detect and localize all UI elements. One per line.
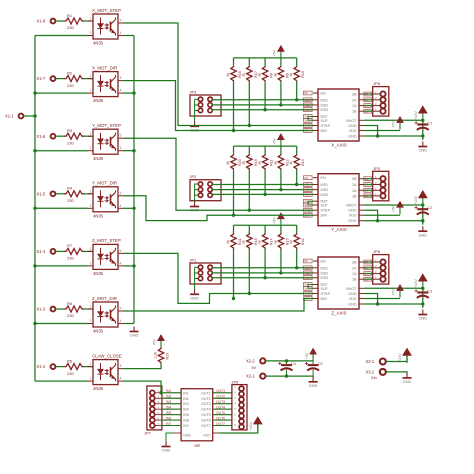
svg-text:MS3: MS3 — [321, 108, 329, 112]
junction pullup — [248, 124, 251, 127]
wire opto cathode branch — [35, 265, 88, 267]
wire coil 1A — [364, 105, 373, 107]
connector JP3 — [190, 90, 222, 117]
svg-text:4N35: 4N35 — [93, 156, 104, 161]
junction emitter bus — [132, 207, 135, 210]
svg-text:JP8: JP8 — [373, 249, 380, 254]
junction GNDII — [376, 134, 379, 137]
svg-text:SLP: SLP — [321, 287, 329, 291]
wire coil 1A — [364, 189, 373, 191]
wire net IN6 — [162, 419, 181, 421]
svg-text:OUT3: OUT3 — [216, 400, 225, 404]
optocoupler X_MOT_STEP 4N35 — [88, 8, 123, 46]
svg-text:VDD: VDD — [349, 297, 357, 301]
junction C4 bottom — [285, 374, 288, 377]
net label STEP — [304, 124, 313, 128]
svg-text:EN: EN — [305, 91, 309, 95]
wire pullup top leg — [233, 58, 235, 66]
svg-text:1B: 1B — [352, 110, 357, 114]
svg-text:2B: 2B — [365, 92, 368, 96]
net label OUT1 — [216, 389, 225, 393]
wire net IN7 — [162, 425, 181, 427]
svg-text:C5: C5 — [318, 361, 323, 366]
junction cathode bus — [33, 149, 36, 152]
svg-text:DIR: DIR — [321, 214, 328, 218]
junction pullup — [232, 214, 235, 217]
ground JP2 — [190, 202, 199, 213]
junction cathode bus — [33, 264, 36, 267]
svg-text:2: 2 — [90, 261, 92, 265]
junction pullup — [263, 276, 266, 279]
supply +5V arrow VDD — [392, 201, 404, 214]
wire net MS2 — [212, 189, 313, 191]
svg-text:230: 230 — [67, 25, 74, 30]
svg-text:5: 5 — [120, 19, 122, 23]
optocoupler Z_MOT_DIR 4N35 — [88, 296, 123, 334]
svg-text:4: 4 — [120, 261, 122, 265]
net label IN4 — [166, 405, 171, 409]
wire pullup top leg — [264, 58, 266, 66]
svg-text:OUT5: OUT5 — [201, 413, 211, 417]
net label OUT7 — [216, 422, 225, 426]
svg-text:+5V: +5V — [392, 121, 396, 128]
svg-text:STEP: STEP — [321, 124, 331, 128]
connector JP9 — [232, 380, 248, 430]
svg-text:MS1: MS1 — [305, 183, 311, 187]
wire net IN5 — [162, 414, 181, 416]
wire pullup +5V rail — [234, 57, 297, 59]
svg-text:4: 4 — [120, 204, 122, 208]
svg-text:+24V: +24V — [414, 279, 418, 288]
svg-text:4N35: 4N35 — [93, 329, 104, 334]
resistor R3 230 — [64, 128, 84, 145]
wire JP gnd column — [195, 184, 199, 202]
ground emitter bus — [130, 327, 139, 338]
svg-text:Y_AXIS: Y_AXIS — [331, 227, 346, 232]
net label OUT3 — [216, 400, 225, 404]
svg-text:4: 4 — [120, 146, 122, 150]
wire pullup top leg — [233, 225, 235, 233]
svg-text:X2-1: X2-1 — [246, 374, 255, 379]
wire pullup bottom leg — [248, 170, 250, 210]
svg-text:GND: GND — [418, 316, 427, 321]
svg-text:R1: R1 — [67, 13, 73, 18]
resistor R19 1k — [242, 154, 258, 170]
ground JP3 — [190, 121, 199, 132]
wire pullup top leg — [280, 58, 282, 66]
svg-text:230: 230 — [67, 313, 74, 318]
wire pullup top leg — [248, 58, 250, 66]
svg-text:+5V: +5V — [392, 289, 396, 296]
wire pullup bottom leg — [233, 249, 235, 299]
wire opto emitter stub — [123, 92, 134, 94]
net label MS1 — [304, 266, 313, 270]
resistor R22 1k — [289, 233, 305, 249]
svg-text:4: 4 — [120, 319, 122, 323]
wire coil 1B — [364, 278, 373, 280]
wire pullup top leg — [296, 146, 298, 154]
wire X2-2 5V rail — [265, 360, 313, 362]
wire opto emitter stub — [123, 323, 134, 325]
wire X1-1 to bus — [24, 115, 36, 117]
wire pullup top leg — [233, 146, 235, 154]
wire net MS3 — [212, 109, 313, 112]
wire pullup bottom leg — [280, 249, 282, 273]
svg-text:C1: C1 — [427, 120, 432, 125]
svg-text:IN3: IN3 — [166, 400, 171, 404]
svg-text:X_MOT_DIR: X_MOT_DIR — [92, 65, 117, 70]
resistor R12 1k — [273, 154, 289, 170]
wire pullup bottom leg — [296, 82, 298, 100]
svg-text:X1-6: X1-6 — [37, 134, 46, 139]
wire X1-8 to resistor — [56, 20, 65, 22]
wire net MS1 — [212, 183, 313, 186]
driver IC Z_AXIS — [313, 257, 364, 316]
net label 1B — [364, 109, 372, 113]
svg-text:EN: EN — [305, 176, 309, 180]
svg-text:JP7: JP7 — [144, 431, 151, 436]
wire X3-1 24V — [386, 356, 407, 362]
svg-text:4N35: 4N35 — [93, 98, 104, 103]
svg-text:2: 2 — [90, 377, 92, 381]
junction pullup — [295, 183, 298, 186]
svg-text:2: 2 — [90, 319, 92, 323]
svg-text:GND: GND — [348, 209, 357, 213]
svg-text:IN2: IN2 — [166, 394, 171, 398]
connector pin X2-2 — [246, 358, 265, 370]
wire VDD to 5V — [364, 214, 400, 216]
junction cathode bus — [33, 207, 36, 210]
net label EN — [304, 91, 313, 95]
wire coil 1A — [364, 273, 373, 275]
wire VMOT to 24V — [364, 119, 423, 121]
wire resistor to opto pin1 — [84, 78, 93, 80]
connector pin X1-8 — [37, 19, 56, 24]
svg-text:+5V: +5V — [305, 352, 309, 359]
svg-text:4N35: 4N35 — [93, 386, 104, 391]
junction X1-1 bus — [33, 114, 36, 117]
wire opto emitter stub — [123, 207, 134, 209]
connector JP8 — [373, 249, 389, 284]
wire pullup +5V rail — [234, 145, 297, 147]
supply +5V arrow pullups — [273, 46, 285, 59]
ground C1 — [418, 142, 427, 153]
wire coil 1B — [364, 110, 373, 112]
svg-text:IN2: IN2 — [183, 397, 189, 401]
wire opto emitter stub — [123, 265, 134, 267]
net label MS3 — [304, 108, 313, 112]
svg-text:IN4: IN4 — [183, 408, 189, 412]
svg-text:C2: C2 — [427, 205, 432, 210]
svg-text:5: 5 — [120, 191, 122, 195]
junction emitter bus — [132, 91, 135, 94]
wire pullup bottom leg — [248, 82, 250, 126]
wire net OUT7 — [213, 425, 232, 427]
supply +5V arrow R23 — [153, 335, 165, 348]
wire VMOT to 24V — [364, 287, 423, 289]
supply +5V arrow VDD — [392, 285, 404, 298]
net label STEP — [304, 292, 313, 296]
connector pin X1-7 — [37, 76, 56, 81]
wire pullup top leg — [264, 146, 266, 154]
svg-text:R3: R3 — [67, 128, 73, 133]
svg-text:X3-1: X3-1 — [366, 359, 375, 364]
svg-text:4: 4 — [120, 89, 122, 93]
wire GND step — [364, 294, 378, 305]
connector JP6 — [373, 81, 389, 116]
ground U8 — [162, 442, 171, 453]
net label 2B — [364, 92, 372, 96]
capacitor C5 — [305, 361, 323, 376]
optocoupler Y_MOT_STEP 4N35 — [88, 123, 123, 161]
svg-text:IN1: IN1 — [166, 389, 171, 393]
svg-text:GND: GND — [348, 124, 357, 128]
svg-text:EN: EN — [305, 259, 309, 263]
net label IN3 — [166, 400, 171, 404]
svg-text:X1-5: X1-5 — [37, 191, 46, 196]
svg-text:R10: R10 — [301, 71, 305, 78]
svg-text:1k: 1k — [242, 73, 246, 77]
wire pullup bottom leg — [233, 82, 235, 131]
supply +24V arrow U8 — [249, 417, 262, 432]
resistor R14 1k — [258, 233, 274, 249]
svg-text:IN7: IN7 — [166, 422, 171, 426]
svg-text:JP1: JP1 — [190, 258, 197, 263]
wire X2-1 gnd rail — [265, 375, 313, 377]
svg-text:R6: R6 — [67, 301, 73, 306]
svg-text:2A: 2A — [365, 266, 368, 270]
wire net IN3 — [162, 403, 181, 405]
svg-text:R4: R4 — [67, 186, 73, 191]
net label MS3 — [304, 193, 313, 197]
svg-text:C4: C4 — [291, 361, 297, 366]
svg-text:1k: 1k — [226, 161, 230, 165]
svg-text:OUT2: OUT2 — [216, 394, 225, 398]
wire VDD to 5V — [364, 130, 400, 132]
wire coil 2A — [364, 184, 373, 186]
svg-text:MS2: MS2 — [321, 103, 329, 107]
net label STEP — [304, 208, 313, 212]
wire coil 2A — [364, 267, 373, 269]
svg-text:1B: 1B — [365, 194, 368, 198]
svg-text:2A: 2A — [365, 98, 368, 102]
wire X1-2 to resistor — [56, 366, 65, 368]
wire opto cathode branch — [35, 207, 88, 209]
wire net Z DIR — [123, 299, 313, 312]
junction VMOT cap — [421, 203, 424, 206]
svg-text:1B: 1B — [365, 109, 368, 113]
wire opto cathode branch — [35, 323, 88, 325]
svg-text:X_MOT_STEP: X_MOT_STEP — [92, 8, 121, 13]
svg-text:OUT2: OUT2 — [201, 397, 211, 401]
junction pullup — [279, 103, 282, 106]
wire pullup top leg — [248, 225, 250, 233]
svg-text:1A: 1A — [365, 104, 368, 108]
svg-text:MS2: MS2 — [305, 271, 311, 275]
wire net Z STEP — [123, 253, 313, 303]
resistor R7 230 — [64, 243, 84, 260]
optocoupler X_MOT_DIR 4N35 — [88, 65, 123, 103]
junction pullup — [232, 297, 235, 300]
svg-text:1B: 1B — [365, 277, 368, 281]
wire net OUT2 — [213, 397, 232, 399]
svg-text:+24V: +24V — [398, 353, 402, 362]
junction GNDII — [376, 302, 379, 305]
svg-text:MS3: MS3 — [305, 193, 311, 197]
svg-text:1k: 1k — [242, 240, 246, 244]
svg-text:OUT7: OUT7 — [201, 424, 211, 428]
junction C4 top — [285, 359, 288, 362]
wire JP gnd column — [195, 99, 199, 121]
connector pin X1-1 — [5, 114, 23, 119]
net label SLP — [304, 118, 313, 122]
junction pullup — [295, 98, 298, 101]
net label EN — [304, 259, 313, 263]
wire resistor to opto pin1 — [84, 250, 93, 252]
connector pin X1-5 — [37, 191, 56, 196]
wire coil 2A — [364, 99, 373, 101]
wire resistor to opto pin1 — [84, 135, 93, 137]
wire opto cathode branch — [35, 92, 88, 94]
svg-text:MS1: MS1 — [321, 183, 329, 187]
net label 2A — [364, 183, 372, 187]
junction cap GNDII — [421, 302, 424, 305]
svg-text:MS1: MS1 — [305, 266, 311, 270]
svg-text:EN: EN — [321, 260, 326, 264]
wire net IN2 — [162, 397, 181, 399]
svg-text:1k: 1k — [289, 240, 293, 244]
net label OUT6 — [216, 416, 225, 420]
svg-text:X1-1: X1-1 — [5, 114, 14, 119]
svg-text:1: 1 — [90, 17, 92, 21]
wire X2 gnd drop — [312, 375, 314, 378]
svg-text:EN: EN — [321, 176, 326, 180]
net label RST — [304, 115, 313, 119]
resistor R17 1k — [242, 66, 258, 82]
svg-text:IN6: IN6 — [183, 419, 189, 423]
svg-text:VMOT: VMOT — [346, 204, 357, 208]
svg-text:OUT1: OUT1 — [216, 389, 225, 393]
resistor R16 1k — [226, 66, 242, 82]
wire opto emitter stub — [123, 35, 134, 37]
junction emitter bus — [132, 149, 135, 152]
svg-text:X1-3: X1-3 — [37, 307, 46, 312]
svg-text:R23: R23 — [166, 353, 170, 360]
net label 2A — [364, 266, 372, 270]
svg-text:VDC: VDC — [203, 434, 211, 438]
svg-text:2.2k: 2.2k — [153, 352, 157, 359]
wire opto cathode branch — [35, 380, 88, 382]
svg-text:1k: 1k — [289, 73, 293, 77]
connector JP7 — [144, 386, 162, 436]
svg-text:+5V: +5V — [273, 217, 277, 224]
svg-text:4N35: 4N35 — [93, 41, 104, 46]
svg-text:2B: 2B — [365, 260, 368, 264]
net label DIR — [304, 129, 313, 133]
wire net Y STEP — [123, 138, 313, 210]
wire pullup top leg — [264, 225, 266, 233]
svg-text:4N35: 4N35 — [93, 213, 104, 218]
capacitor C1 — [415, 120, 433, 140]
driver IC X_AXIS — [313, 89, 364, 148]
svg-text:1: 1 — [90, 189, 92, 193]
svg-text:+5V: +5V — [273, 49, 277, 56]
wire pullup bottom leg — [296, 170, 298, 185]
svg-text:5: 5 — [120, 307, 122, 311]
resistor R21 1k — [226, 233, 242, 249]
svg-text:MS3: MS3 — [321, 193, 329, 197]
net label 1B — [364, 277, 372, 281]
net label DIR — [304, 297, 313, 301]
wire emitter bus — [133, 36, 135, 324]
wire VDD to 5V — [364, 298, 400, 300]
svg-text:2: 2 — [90, 204, 92, 208]
svg-text:Y_MOT_STEP: Y_MOT_STEP — [92, 123, 121, 128]
net label MS2 — [304, 103, 313, 107]
wire pullup bottom leg — [264, 170, 266, 195]
svg-text:R2: R2 — [67, 70, 73, 75]
wire net IN1 — [162, 392, 181, 394]
wire RST-SLP link — [308, 201, 313, 205]
wire net Y DIR — [123, 196, 313, 221]
wire cathode bus — [34, 36, 36, 382]
svg-text:1k: 1k — [258, 240, 262, 244]
net label IN7 — [166, 422, 171, 426]
wire JP gnd column — [195, 267, 199, 289]
svg-text:1: 1 — [90, 305, 92, 309]
svg-text:1: 1 — [90, 247, 92, 251]
wire net OUT3 — [213, 403, 232, 405]
svg-text:4: 4 — [120, 377, 122, 381]
optocoupler Y_MOT_DIR 4N35 — [88, 181, 123, 219]
svg-text:4: 4 — [120, 31, 122, 35]
resistor R6 230 — [64, 301, 84, 318]
capacitor C3 — [415, 288, 433, 308]
wire pullup top leg — [248, 146, 250, 154]
svg-text:GND: GND — [348, 303, 357, 307]
svg-text:GND: GND — [348, 135, 357, 139]
svg-text:JP5: JP5 — [373, 166, 380, 171]
svg-text:X1-7: X1-7 — [37, 76, 46, 81]
svg-text:2A: 2A — [352, 98, 357, 102]
svg-text:+24V: +24V — [414, 195, 418, 204]
svg-text:MS1: MS1 — [305, 98, 311, 102]
wire pullup bottom leg — [296, 249, 298, 268]
svg-text:+24V: +24V — [414, 111, 418, 120]
net label MS1 — [304, 183, 313, 187]
net label 2A — [364, 98, 372, 102]
wire opto emitter stub — [123, 150, 134, 152]
svg-text:2B: 2B — [352, 261, 357, 265]
wire pullup +5V rail — [234, 224, 297, 226]
svg-text:Z_MOT_DIR: Z_MOT_DIR — [92, 296, 117, 301]
svg-text:1k: 1k — [273, 73, 277, 77]
resistor R5 230 — [64, 358, 84, 375]
svg-text:MS3: MS3 — [321, 276, 329, 280]
driver IC U8 — [162, 389, 232, 448]
wire RST-SLP link — [308, 117, 313, 121]
wire net X STEP — [123, 23, 313, 126]
net label RST — [304, 283, 313, 287]
svg-text:MS2: MS2 — [321, 188, 329, 192]
svg-text:230: 230 — [67, 140, 74, 145]
supply +5V arrow pullups — [273, 134, 285, 147]
net label MS2 — [304, 271, 313, 275]
wire GNDII row — [364, 220, 423, 222]
wire pullup bottom leg — [280, 170, 282, 190]
svg-text:1: 1 — [90, 74, 92, 78]
svg-text:GND: GND — [183, 434, 191, 438]
